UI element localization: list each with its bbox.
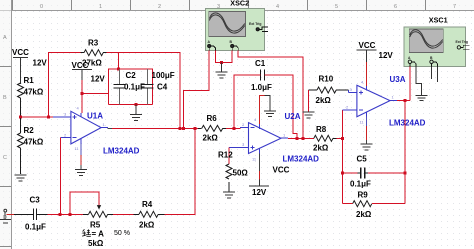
XSC1 A+ wire down to U3A output node: [409, 67, 411, 101]
op-amp U3A: [357, 85, 390, 116]
svg-text:6: 6: [394, 4, 397, 10]
svg-text:R4: R4: [142, 200, 153, 209]
svg-text:VCC: VCC: [12, 48, 29, 57]
svg-text:12V: 12V: [33, 59, 48, 68]
svg-text:B: B: [3, 95, 7, 101]
R10 left down to ground: [308, 90, 310, 112]
svg-text:R3: R3: [88, 39, 99, 48]
wire R3 right along top then down to output node: [103, 52, 107, 54]
capacitor C4 100uF: [142, 69, 154, 105]
XSC2 B+ wire to U2A output: [238, 51, 303, 139]
svg-text:XSC2: XSC2: [230, 0, 249, 8]
VCC supply V3 (above U3A): [357, 50, 377, 62]
capacitor C5 0.1uF: [358, 168, 369, 179]
svg-text:R6: R6: [207, 114, 218, 123]
VCC supply V1 (top-left): [13, 58, 28, 78]
svg-text:2kΩ: 2kΩ: [356, 210, 372, 219]
resistor R6 2k (horizontal, on main wire): [198, 124, 226, 132]
svg-text:R5: R5: [90, 221, 101, 230]
svg-text:U3A: U3A: [390, 75, 406, 84]
C1 left wire down to U2A - input: [234, 75, 260, 129]
svg-text:R10: R10: [319, 75, 334, 84]
ground under XSC2: [215, 63, 227, 78]
svg-text:R12: R12: [218, 151, 233, 160]
C1 right wire down to U2A output: [265, 75, 298, 139]
wire from +node up and right (left riser x48): [48, 53, 80, 116]
svg-text:A: A: [3, 35, 7, 41]
resistor R9 2k (horizontal): [353, 201, 372, 207]
svg-text:VCC: VCC: [273, 166, 290, 175]
R8 riser to U3A - input: [341, 110, 343, 204]
svg-text:C1: C1: [255, 59, 266, 68]
svg-text:XSC1: XSC1: [429, 16, 448, 25]
XSC2 A-/B- ground rail: [216, 51, 233, 63]
cap rail rectangle: [109, 69, 153, 105]
svg-text:1: 1: [99, 4, 102, 10]
svg-text:C3: C3: [30, 196, 41, 205]
svg-text:C5: C5: [357, 155, 368, 164]
wire VCC2 down to U1A V+ with branch to rail: [81, 80, 83, 113]
wire R4 up to main wire: [165, 128, 195, 214]
svg-text:50Ω: 50Ω: [233, 169, 249, 178]
svg-text:2kΩ: 2kΩ: [139, 221, 155, 230]
resistor R1 47k (vertical): [18, 83, 24, 116]
ground below R2: [15, 175, 27, 181]
junction at x48 on + wire: [47, 115, 50, 118]
XSC1 A- wire to ground: [416, 67, 422, 95]
svg-text:47kΩ: 47kΩ: [24, 88, 44, 97]
U1A V- pin down to ground: [80, 144, 82, 155]
svg-text:LM324AD: LM324AD: [283, 155, 320, 164]
right rail down from U3A output: [404, 101, 406, 204]
node: divider midpoint wire to U1A +: [21, 116, 54, 118]
svg-text:= A: = A: [92, 229, 105, 238]
U3A output wire: [397, 100, 410, 102]
svg-text:VCC: VCC: [359, 41, 376, 50]
svg-text:R8: R8: [316, 125, 327, 134]
svg-text:0.1μF: 0.1μF: [25, 223, 46, 232]
svg-text:100μF: 100μF: [152, 71, 175, 80]
svg-text:47kΩ: 47kΩ: [24, 138, 44, 147]
resistor R12 50 (vertical, U2A + to ground): [228, 148, 230, 165]
svg-text:LM324AD: LM324AD: [389, 119, 426, 128]
resistor R2 47k (vertical): [18, 118, 24, 174]
capacitor C2 0.1uF: [113, 69, 125, 105]
U3A V- down to ground: [366, 117, 368, 127]
resistor R4 2k (horizontal): [134, 211, 165, 217]
input pin circle + ground at far left: [0, 209, 11, 223]
svg-text:C2: C2: [126, 71, 137, 80]
XSC2 A+ wire down-left to U1A output: [184, 51, 210, 129]
wire R5 to R4: [113, 213, 134, 215]
XSC1 B stubs (unconnected): [431, 67, 433, 79]
riser from top wire down to cap rail: [117, 53, 119, 69]
svg-text:2kΩ: 2kΩ: [316, 96, 332, 105]
svg-text:0.1μF: 0.1μF: [350, 180, 371, 189]
svg-text:12V: 12V: [252, 188, 267, 197]
svg-text:27kΩ: 27kΩ: [82, 59, 102, 68]
wire VCC1 to R1: [20, 70, 22, 84]
resistor R10 2k (horizontal): [309, 87, 349, 93]
svg-text:U1A: U1A: [87, 112, 103, 121]
svg-text:R2: R2: [24, 126, 35, 135]
svg-text:0: 0: [40, 4, 43, 10]
svg-text:C: C: [3, 155, 7, 161]
wire from pin to C3: [7, 213, 15, 215]
feedback riser to U1A - input: [59, 138, 61, 215]
svg-text:12V: 12V: [379, 51, 394, 60]
svg-text:R9: R9: [358, 191, 369, 200]
resistor R8 2k (horizontal): [314, 135, 337, 141]
svg-text:Ext Trig: Ext Trig: [249, 22, 261, 26]
svg-text:R1: R1: [24, 76, 35, 85]
left ruler strip: [0, 0, 12, 249]
potentiometer R5 5k with wiper bypass: [70, 192, 99, 214]
bottom wire C3 to R5: [48, 213, 84, 215]
svg-text:12V: 12V: [91, 75, 106, 84]
svg-text:U2A: U2A: [285, 112, 301, 121]
svg-text:7: 7: [453, 4, 456, 10]
VCC supply V2 (above U1A): [72, 70, 92, 81]
svg-text:2: 2: [158, 4, 161, 10]
svg-text:C4: C4: [157, 83, 168, 92]
U2A V- pin down to VCC (below): [258, 154, 260, 172]
ground below cap rail: [135, 103, 138, 106]
svg-text:5: 5: [335, 4, 338, 10]
VCC supply V4 (below U2A, inverted): [249, 185, 269, 187]
svg-text:1.0μF: 1.0μF: [251, 83, 272, 92]
svg-text:5kΩ: 5kΩ: [88, 239, 104, 248]
top ruler strip: [0, 0, 474, 11]
svg-text:LM324AD: LM324AD: [103, 147, 140, 156]
resistor R3 27k (horizontal): [84, 50, 103, 56]
svg-text:2kΩ: 2kΩ: [203, 134, 219, 143]
capacitor C3 0.1uF (horizontal): [34, 209, 48, 221]
svg-text:50 %: 50 %: [114, 230, 130, 237]
glyph 键 (Key) drawn manually: [82, 229, 91, 236]
svg-text:2kΩ: 2kΩ: [313, 144, 329, 153]
svg-text:4: 4: [276, 4, 279, 10]
svg-text:Ext Trig: Ext Trig: [456, 40, 468, 44]
U2A V+ pin wrap to ground above: [259, 96, 264, 125]
